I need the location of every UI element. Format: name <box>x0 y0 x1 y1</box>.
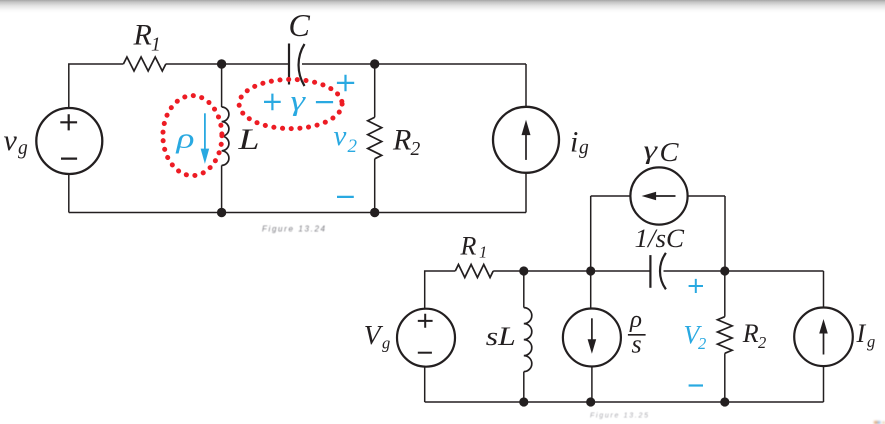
svg-text:R: R <box>133 18 152 51</box>
wire: vg bottom to bottom rail <box>68 174 70 213</box>
wire: Vg bottom to bottom rail <box>424 367 426 402</box>
gamma-C loop left vertical wire <box>590 196 592 271</box>
voltage source Vg circle <box>397 309 455 367</box>
plus sign in Vg <box>418 314 433 328</box>
rho/s arrow down <box>591 318 593 340</box>
wire: capacitor C to ig branch <box>302 63 526 65</box>
node dot top of L <box>217 59 226 68</box>
gammaC arrow pointing left <box>655 195 676 197</box>
gamma-C loop right horizontal wire <box>688 195 725 197</box>
dependent source rho/s circle <box>563 309 621 367</box>
current source ig bottom wire <box>525 173 527 213</box>
cyan plus left of gamma <box>264 94 281 111</box>
wire: R1 to capacitor 1/sC <box>493 270 650 272</box>
svg-text:γ: γ <box>291 85 307 117</box>
svg-text:1: 1 <box>479 242 487 261</box>
node dot top of rho/s <box>586 266 595 275</box>
current source Ig upper wire <box>823 271 825 308</box>
inductor sL upper wire <box>523 271 525 308</box>
resistor R1 (s-domain) <box>455 265 493 278</box>
node dot top of R2 <box>370 59 379 68</box>
minus sign in Vg <box>418 352 432 354</box>
current source ig arrow <box>525 133 527 160</box>
wire: bottom rail circuit 1 <box>69 212 526 214</box>
top gradient bar <box>0 0 885 13</box>
cyan plus of V2 <box>689 279 703 293</box>
svg-text:i: i <box>570 126 578 159</box>
svg-text:Figure 13.25: Figure 13.25 <box>590 413 648 420</box>
wire: bottom rail circuit 2 <box>425 401 824 403</box>
node dot top of R2 (s-domain) <box>720 266 729 275</box>
inductor L coils <box>222 107 229 165</box>
svg-text:g: g <box>382 334 390 353</box>
dependent source rho/s upper wire <box>590 271 592 308</box>
svg-text:C: C <box>660 137 680 167</box>
wire: top-left segment from vg to R1 <box>69 64 124 108</box>
capacitor C left plate <box>288 44 290 85</box>
svg-text:R: R <box>460 232 477 261</box>
gamma-C loop right vertical wire <box>724 196 726 271</box>
wire: top-left corner to R1 (s-domain) <box>425 271 456 309</box>
resistor R2 (s-domain) lower wire <box>724 353 726 402</box>
node dot bottom of R2 (s-domain) <box>720 397 729 406</box>
inductor sL coils <box>524 308 532 372</box>
current source ig circle <box>493 107 559 173</box>
cyan plus of v2 <box>337 75 354 92</box>
plus sign in vg <box>60 114 77 130</box>
dependent source gammaC circle <box>630 167 687 224</box>
wire: R1 to capacitor C <box>166 63 289 65</box>
dependent source rho/s lower wire <box>591 367 593 402</box>
cyan minus of v2 <box>337 196 354 198</box>
bottom-right tiny colored mark <box>874 421 885 424</box>
svg-text:v: v <box>4 124 18 157</box>
current source Ig arrow <box>823 331 825 355</box>
node dot bottom of R2 <box>370 208 379 217</box>
capacitor C right curved plate <box>299 44 305 86</box>
svg-text:L: L <box>237 123 259 156</box>
svg-text:C: C <box>289 7 311 43</box>
red dotted ellipse around gamma <box>239 79 342 128</box>
inductor L branch lower wire <box>221 165 223 212</box>
node dot bottom of sL <box>519 397 528 406</box>
svg-text:sL: sL <box>486 322 516 351</box>
svg-text:2: 2 <box>411 139 421 160</box>
resistor R2 branch lower wire <box>374 159 376 213</box>
current source ig top wire <box>525 64 527 107</box>
node dot bottom of L <box>217 208 226 217</box>
svg-text:2: 2 <box>698 334 706 353</box>
resistor R1 <box>123 57 165 71</box>
svg-text:R: R <box>392 124 411 157</box>
node dot top of sL <box>519 266 528 275</box>
svg-text:2: 2 <box>758 333 766 352</box>
svg-text:v: v <box>334 120 347 152</box>
svg-text:g: g <box>579 138 589 159</box>
cyan minus of V2 <box>689 384 703 386</box>
cyan minus right of gamma <box>316 101 333 103</box>
capacitor 1/sC left plate <box>649 255 651 288</box>
resistor R2 zigzag <box>368 117 382 159</box>
svg-text:2: 2 <box>348 136 358 157</box>
inductor L branch upper wire <box>221 64 223 107</box>
svg-text:1/sC: 1/sC <box>635 224 685 253</box>
current source Ig circle <box>794 308 853 367</box>
cyan arrow down next to L <box>204 113 206 150</box>
svg-text:s: s <box>632 330 642 359</box>
svg-text:g: g <box>867 332 875 351</box>
svg-text:ρ: ρ <box>175 123 194 155</box>
resistor R2 branch upper wire <box>374 64 376 117</box>
inductor sL lower wire <box>523 372 525 402</box>
voltage source vg circle <box>36 108 102 174</box>
svg-text:I: I <box>856 319 867 348</box>
node dot bottom of rho/s <box>586 397 595 406</box>
wire: capacitor to Ig corner <box>664 270 824 272</box>
svg-text:R: R <box>742 319 759 348</box>
current source Ig lower wire <box>823 366 825 402</box>
red dotted ellipse around rho <box>163 96 222 176</box>
resistor R2 (s-domain) zigzag <box>718 317 733 354</box>
gamma-C loop left horizontal wire <box>591 195 631 197</box>
svg-text:1: 1 <box>151 35 161 56</box>
svg-text:g: g <box>18 138 28 159</box>
svg-text:γ: γ <box>644 136 658 165</box>
svg-text:Figure 13.24: Figure 13.24 <box>262 225 326 234</box>
resistor R2 (s-domain) upper wire <box>724 271 726 317</box>
capacitor 1/sC right curved plate <box>660 253 666 289</box>
minus sign in vg <box>61 158 77 160</box>
svg-text:V: V <box>364 319 384 350</box>
